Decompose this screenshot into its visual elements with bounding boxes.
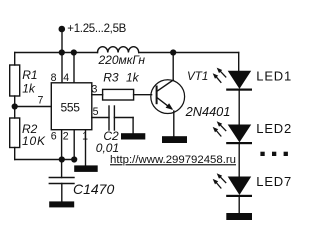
svg-text:1k: 1k bbox=[126, 70, 140, 84]
svg-text:220мкГн: 220мкГн bbox=[98, 53, 146, 67]
svg-text:1k: 1k bbox=[22, 82, 36, 96]
svg-text:8: 8 bbox=[51, 72, 57, 84]
svg-text:http://www.299792458.ru: http://www.299792458.ru bbox=[110, 154, 236, 166]
svg-text:VT1: VT1 bbox=[187, 70, 208, 83]
svg-text:R1: R1 bbox=[22, 68, 37, 82]
svg-text:555: 555 bbox=[61, 100, 81, 114]
svg-text:R3: R3 bbox=[103, 70, 119, 84]
svg-text:10K: 10K bbox=[22, 134, 46, 148]
svg-text:4: 4 bbox=[63, 72, 69, 84]
svg-text:+1.25...2,5В: +1.25...2,5В bbox=[67, 23, 126, 35]
svg-text:6: 6 bbox=[51, 131, 57, 143]
svg-text:2N4401: 2N4401 bbox=[185, 104, 231, 119]
svg-text:7: 7 bbox=[38, 95, 44, 107]
svg-text:LED7: LED7 bbox=[256, 174, 292, 189]
svg-text:LED1: LED1 bbox=[256, 69, 292, 84]
svg-text:2: 2 bbox=[63, 131, 69, 143]
svg-text:3: 3 bbox=[92, 84, 98, 96]
svg-text:0,01: 0,01 bbox=[96, 141, 119, 155]
svg-text:5: 5 bbox=[93, 106, 99, 118]
svg-text:LED2: LED2 bbox=[256, 121, 292, 136]
svg-text:1: 1 bbox=[82, 131, 88, 143]
svg-text:C1470: C1470 bbox=[73, 181, 114, 197]
